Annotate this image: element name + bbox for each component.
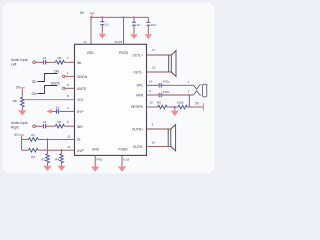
capacitor C8 470u — [158, 90, 170, 97]
node junction PL/R2 — [46, 138, 48, 140]
wire VDD stub pin 13 — [90, 17, 92, 44]
node junction UVP/R4 — [60, 149, 62, 151]
capacitor C2 — [42, 120, 47, 128]
wire 5V down to rows — [21, 137, 23, 151]
resistor R1 — [29, 133, 39, 141]
switch SW2 mute — [32, 82, 61, 96]
ground under HP sense node — [171, 111, 179, 116]
svg-text:R2: R2 — [41, 157, 45, 161]
svg-text:12: 12 — [67, 145, 71, 149]
svg-text:17: 17 — [152, 48, 156, 52]
svg-text:HPL: HPL — [137, 84, 144, 88]
svg-text:HPR: HPR — [136, 94, 144, 98]
wire R3 to UVP pin 12 — [38, 149, 74, 151]
ground under C6 — [145, 34, 153, 39]
svg-text:MUTE: MUTE — [77, 87, 87, 91]
svg-text:Audio Input: Audio Input — [11, 58, 28, 62]
wire R1 to PL pin 11 — [38, 138, 74, 140]
wire R9 to 5V — [187, 106, 203, 108]
wire top 5V rail — [91, 16, 148, 18]
speaker SP2 right channel — [168, 125, 175, 151]
wire SW2 to MUTE pin 9 — [65, 87, 75, 89]
Audio Input Right label — [11, 121, 28, 130]
svg-text:19: 19 — [152, 141, 156, 145]
capacitor C5 1U — [132, 17, 140, 34]
svg-text:OUTL-: OUTL- — [133, 70, 143, 74]
wire C7 to jack tip — [162, 84, 194, 86]
wire SW1 to /SHDN pin 1 — [65, 75, 75, 77]
svg-text:HP/SPK: HP/SPK — [131, 105, 144, 109]
wire R5 to node — [167, 106, 178, 108]
svg-text:C2: C2 — [43, 120, 47, 124]
IC U1 audio amplifier body — [75, 44, 147, 155]
Audio Input Left label — [11, 58, 28, 67]
capacitor C7 470u — [158, 80, 170, 88]
wire R4 vertical — [61, 150, 63, 154]
resistor R6 input left — [55, 56, 64, 64]
wire node to ground — [174, 107, 176, 111]
wire R2 to ground — [47, 163, 49, 166]
ground under R2 — [43, 166, 51, 171]
svg-text:R1: R1 — [31, 133, 35, 137]
wire input left to C1 — [35, 61, 43, 63]
ground under GND pin — [91, 167, 99, 172]
wire HP/SPK pin 10 — [147, 106, 158, 108]
wire 5V to pot R8 — [21, 90, 23, 98]
wire R7 to INR pin 5 — [65, 125, 75, 127]
svg-text:ON: ON — [54, 70, 60, 74]
wire C3 to BYP pin 4 — [59, 110, 74, 112]
headphone jack J1 — [194, 84, 207, 97]
svg-text:15: 15 — [152, 66, 156, 70]
node junction 5V/VDD — [90, 16, 92, 18]
node junction cap C5 — [133, 16, 135, 18]
wire R4 to ground — [61, 163, 63, 166]
svg-text:GND: GND — [92, 148, 100, 152]
svg-text:Audio Input: Audio Input — [11, 121, 28, 125]
svg-text:C1: C1 — [43, 56, 47, 60]
svg-text:R8: R8 — [13, 99, 17, 103]
svg-text:11: 11 — [67, 134, 70, 138]
speaker SP1 left channel — [169, 51, 176, 77]
svg-text:16,28: 16,28 — [114, 40, 122, 44]
wire pot wiper to VOL pin 8 — [24, 99, 74, 101]
wire pot bottom to ground — [21, 107, 23, 110]
svg-text:SD: SD — [32, 80, 37, 84]
svg-text:Left: Left — [11, 63, 17, 67]
wire C1 to R6 — [46, 61, 55, 63]
svg-text:1U: 1U — [56, 105, 60, 109]
svg-text:R6: R6 — [57, 56, 61, 60]
wire PL row left — [22, 138, 29, 140]
ground under R4 — [57, 166, 65, 171]
potentiometer R8 — [13, 97, 24, 107]
svg-text:VDD: VDD — [87, 51, 95, 55]
wire jack switch sense vertical — [188, 95, 190, 107]
svg-text:R4: R4 — [55, 157, 59, 161]
wire PGND stub — [121, 155, 123, 166]
wire C8 to jack ring — [162, 94, 194, 96]
svg-text:OUTR-: OUTR- — [133, 145, 143, 149]
capacitor C1 — [42, 56, 47, 65]
svg-text:10: 10 — [149, 101, 153, 105]
svg-text:R3: R3 — [31, 155, 35, 159]
power 5V top rail symbol — [80, 11, 95, 17]
svg-text:470u: 470u — [163, 80, 170, 84]
svg-text:470u: 470u — [163, 90, 170, 94]
ground under C4 — [99, 34, 107, 39]
switch SW1 shutdown — [32, 70, 60, 84]
capacitor C4 1U — [100, 17, 108, 34]
power 5V divider — [15, 133, 25, 138]
svg-text:R5: R5 — [157, 101, 161, 105]
svg-text:ON: ON — [32, 92, 38, 96]
svg-text:VOL: VOL — [77, 98, 84, 102]
svg-text:OUTR+: OUTR+ — [132, 127, 143, 131]
resistor R5 — [157, 101, 167, 109]
svg-text:INR: INR — [77, 125, 83, 129]
svg-text:UVP: UVP — [77, 149, 84, 153]
terminal SW1 to pin 1 — [63, 75, 65, 77]
wire C2 to R7 — [46, 125, 55, 127]
svg-text:MUTE: MUTE — [51, 82, 61, 86]
resistor R2 — [41, 154, 49, 163]
svg-text:PGND: PGND — [118, 148, 128, 152]
wire OUTL- pin 15 — [147, 71, 172, 73]
wire UVP row left — [22, 149, 29, 151]
wire OUTR- pin 19 — [147, 145, 171, 147]
wire input right to C2 — [35, 125, 43, 127]
wire GND stub — [94, 155, 96, 166]
wire OUTL+ pin 17 — [147, 54, 172, 56]
wire R6 to INL pin 7 — [65, 61, 75, 63]
resistor R3 — [29, 148, 39, 159]
svg-text:1U: 1U — [105, 22, 109, 26]
svg-text:BYP: BYP — [77, 110, 84, 114]
resistor R4 — [55, 154, 63, 163]
svg-text:1U: 1U — [137, 23, 141, 27]
node junction cap C4 — [101, 16, 103, 18]
svg-text:PL: PL — [77, 138, 81, 142]
terminal Audio Input Left — [33, 61, 36, 64]
node junction PVDD — [122, 16, 124, 18]
svg-text:OUTL+: OUTL+ — [132, 53, 143, 57]
svg-text:13: 13 — [83, 40, 87, 44]
power 5V volume pot — [16, 85, 25, 90]
wire PVDD stub pin 16,28 — [123, 17, 125, 44]
ground under pot R8 — [18, 110, 26, 115]
svg-text:INL: INL — [77, 61, 82, 65]
svg-text:PVDD: PVDD — [119, 51, 129, 55]
wire R2 vertical — [47, 139, 49, 153]
wire HPL pin 14 — [147, 84, 159, 86]
wire HPR pin 2 — [147, 94, 159, 96]
terminal Audio Input Right — [33, 125, 36, 128]
capacitor C6 10U — [146, 17, 156, 34]
svg-text:100k: 100k — [177, 101, 184, 105]
resistor R7 input right — [55, 120, 64, 128]
resistor R9 100k — [177, 101, 187, 109]
svg-text:R7: R7 — [57, 120, 61, 124]
ground sideways for BYP cap — [47, 109, 52, 114]
svg-text:10U: 10U — [151, 23, 157, 27]
power 5V jack sense — [195, 102, 204, 111]
svg-text:PAD: PAD — [97, 157, 104, 161]
ground under C5 — [130, 34, 138, 39]
capacitor C3 1U bypass — [56, 105, 60, 113]
wire OUTR+ pin 3 — [147, 128, 171, 130]
node junction R5/R9/ground — [174, 106, 176, 108]
svg-text:6,18: 6,18 — [123, 157, 129, 161]
terminal SW2 to pin 9 — [63, 87, 65, 89]
wire ground to C3 — [52, 110, 56, 112]
node junction UVP/R2 — [46, 149, 48, 151]
svg-text:14: 14 — [149, 79, 153, 83]
ground under PGND pin — [118, 167, 126, 172]
svg-text:/SHDN: /SHDN — [77, 75, 88, 79]
svg-text:Right: Right — [11, 126, 19, 130]
